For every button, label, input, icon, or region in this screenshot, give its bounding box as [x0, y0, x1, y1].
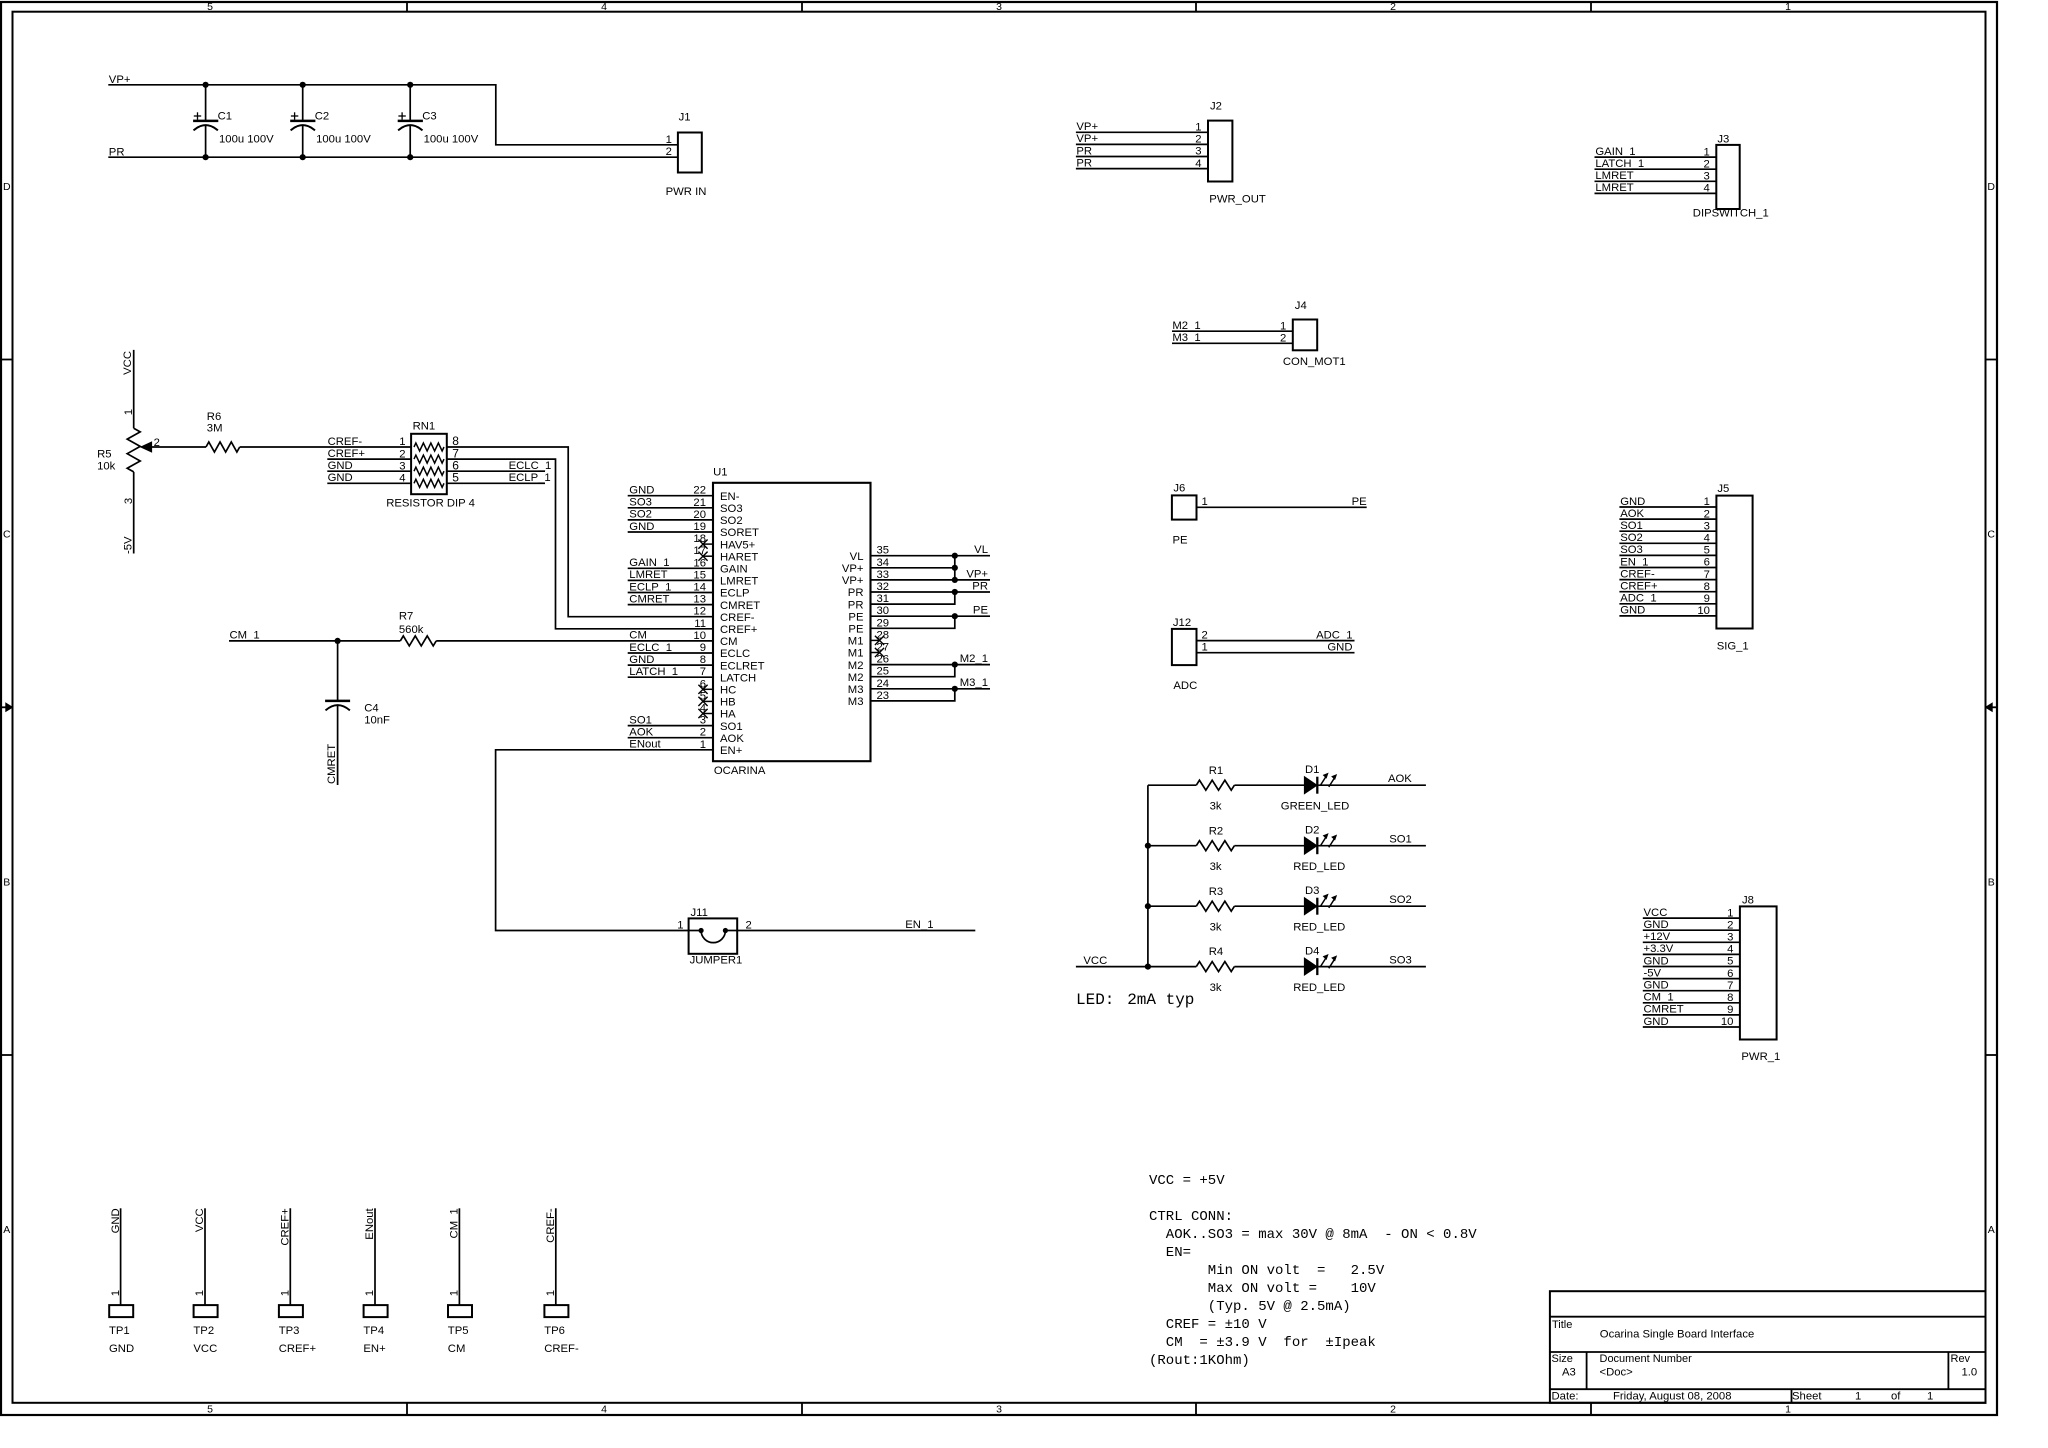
wire M2_1 to J4 [1172, 330, 1293, 332]
wire CREF- to J5 [1619, 579, 1716, 581]
svg-text:CON_MOT1: CON_MOT1 [1283, 356, 1346, 368]
node M2_1 label at J4 [1172, 320, 1200, 332]
svg-text:ECLC_1: ECLC_1 [509, 460, 552, 472]
node GAIN_1 label at U1 pin 16 [629, 557, 669, 569]
svg-text:SO2: SO2 [1620, 532, 1643, 544]
node M3_1 label at U1 [960, 677, 988, 689]
svg-text:ECLRET: ECLRET [720, 660, 765, 672]
no-connect X on U1 pin 17 [698, 552, 713, 561]
wire SO3 to U1 pin 21 [628, 507, 713, 509]
node VP+ label at J2 [1076, 133, 1098, 145]
svg-text:PR: PR [1076, 157, 1092, 169]
svg-text:D: D [1987, 181, 1995, 193]
svg-text:M3_1: M3_1 [960, 677, 988, 689]
no-connect X on U1 pin 4 [698, 709, 713, 718]
svg-text:560k: 560k [399, 624, 424, 636]
wire R6 to RN1 pin 1 (CREF-) [240, 446, 411, 448]
svg-text:C: C [1987, 529, 1995, 541]
svg-text:3k: 3k [1210, 861, 1222, 873]
node LATCH_1 label at J3 [1595, 158, 1644, 170]
resistor network RN1 RESISTOR DIP 4 [386, 421, 475, 510]
svg-text:TP1: TP1 [109, 1325, 130, 1337]
node SO3 label at J5 [1620, 544, 1643, 556]
svg-text:ADC: ADC [1173, 680, 1197, 692]
svg-text:TP6: TP6 [544, 1325, 565, 1337]
svg-text:AOK: AOK [629, 727, 653, 739]
node GND label at U1 pin 8 [629, 654, 654, 666]
connector J12 ADC [1172, 617, 1208, 692]
svg-text:ECLC_1: ECLC_1 [629, 642, 672, 654]
power VCC label (LED section) [1083, 955, 1107, 967]
node PE label [1352, 496, 1368, 508]
svg-text:1: 1 [545, 1290, 557, 1296]
svg-text:Min ON volt = 2.5V: Min ON volt = 2.5V [1149, 1263, 1385, 1279]
node CM label at U1 pin 10 [629, 630, 647, 642]
resistor R3 3k [1196, 886, 1234, 934]
svg-text:(Rout:1KOhm): (Rout:1KOhm) [1149, 1353, 1250, 1369]
node GND label at J5 [1620, 496, 1645, 508]
junction pin 35 [952, 553, 958, 559]
wire SO1 to U1 pin 3 [628, 725, 713, 727]
text LED current note [1076, 991, 1194, 1009]
wire SO1 from D2 [1318, 845, 1426, 847]
wire U1 pin 25 to pin 26 tie [871, 665, 955, 677]
svg-text:12: 12 [693, 606, 706, 618]
svg-text:B: B [1988, 876, 1995, 888]
node CMRET (rotated net label at C4 bottom) [326, 744, 338, 784]
svg-text:HAV5+: HAV5+ [720, 539, 756, 551]
svg-text:VP+: VP+ [966, 568, 988, 580]
svg-text:<Doc>: <Doc> [1600, 1366, 1634, 1378]
test point TP5 CM [448, 1290, 472, 1355]
svg-text:ADC_1: ADC_1 [1620, 593, 1656, 605]
svg-text:EN+: EN+ [363, 1343, 386, 1355]
wire SO2 from D3 [1318, 905, 1426, 907]
wire VP+ from U1 pin 33 [871, 579, 991, 581]
svg-text:ECLP_1: ECLP_1 [509, 472, 551, 484]
svg-text:SO3: SO3 [720, 503, 743, 515]
svg-text:3k: 3k [1210, 922, 1222, 934]
node GND label at J5 [1620, 605, 1645, 617]
svg-text:1: 1 [449, 1290, 461, 1296]
test point TP6 CREF- [544, 1290, 579, 1355]
svg-text:SO1: SO1 [629, 714, 652, 726]
node GND label at J8 [1644, 955, 1669, 967]
svg-text:CREF+: CREF+ [720, 624, 758, 636]
svg-text:D4: D4 [1305, 945, 1319, 957]
capacitor C3 100u 100V (polarized) [398, 85, 479, 157]
wire R7 to U1 pin 10 (CM) [436, 640, 713, 642]
svg-text:D: D [3, 181, 11, 193]
svg-text:LMRET: LMRET [1595, 182, 1633, 194]
svg-text:GND: GND [1644, 980, 1669, 992]
svg-text:D1: D1 [1305, 764, 1319, 776]
capacitor C4 10nF [325, 641, 390, 785]
svg-text:PR: PR [1076, 145, 1092, 157]
wire U1 pin 34 to VP+ column [871, 567, 955, 569]
svg-text:TP4: TP4 [363, 1325, 384, 1337]
svg-text:2mA typ: 2mA typ [1127, 991, 1194, 1009]
wire EN_1 to J5 [1619, 567, 1716, 569]
wire VCC to R5 pin 1 [133, 350, 135, 428]
svg-text:GND: GND [109, 1343, 134, 1355]
wire R3 to D3 [1234, 905, 1304, 907]
wire CM_1 to J8 [1643, 1002, 1740, 1004]
wire AOK from D1 [1318, 784, 1426, 786]
svg-text:Document Number: Document Number [1600, 1353, 1693, 1365]
svg-text:3k: 3k [1210, 801, 1222, 813]
connector J5 SIG_1 [1697, 483, 1752, 653]
svg-text:CMRET: CMRET [326, 744, 338, 784]
svg-text:SORET: SORET [720, 527, 759, 539]
wire GND to J8 [1643, 929, 1740, 931]
svg-text:LATCH_1: LATCH_1 [1595, 158, 1644, 170]
svg-text:RESISTOR DIP 4: RESISTOR DIP 4 [386, 497, 475, 509]
node LMRET label at J3 [1595, 170, 1633, 182]
node GND label at J8 [1644, 919, 1669, 931]
svg-text:GAIN_1: GAIN_1 [1595, 146, 1635, 158]
svg-text:VCC: VCC [1644, 907, 1668, 919]
wire LATCH_1 to J3 [1595, 168, 1717, 170]
node +3.3V label at J8 [1644, 943, 1674, 955]
junction pin 32 [952, 589, 958, 595]
wire -5V to J8 [1643, 978, 1740, 980]
junction bus/R2 [1145, 843, 1151, 849]
capacitor C2 100u 100V (polarized) [290, 85, 371, 157]
svg-text:CREF-: CREF- [544, 1343, 579, 1355]
junction CM/C4 [335, 638, 341, 644]
svg-text:3M: 3M [207, 423, 223, 435]
svg-text:GND: GND [1620, 496, 1645, 508]
svg-text:1: 1 [1855, 1390, 1861, 1402]
svg-text:C3: C3 [422, 111, 436, 123]
svg-text:CREF+: CREF+ [279, 1343, 317, 1355]
svg-text:ECLC: ECLC [720, 648, 750, 660]
svg-text:2: 2 [1390, 1403, 1396, 1415]
node ECLC_1 label at U1 pin 9 [629, 642, 672, 654]
node GND (rotated net label at TP1) [110, 1208, 122, 1233]
svg-text:R4: R4 [1209, 946, 1223, 958]
wire GND to RN1 pin 3 [327, 470, 411, 472]
svg-text:C1: C1 [218, 111, 232, 123]
wire PE from U1 pin 30 [871, 615, 991, 617]
wire EN_1 from J11 pin 2 [737, 930, 975, 932]
node PR label at J2 [1076, 145, 1092, 157]
svg-text:100u 100V: 100u 100V [219, 134, 274, 146]
test point TP3 CREF+ [279, 1290, 317, 1355]
svg-text:J11: J11 [691, 907, 708, 919]
svg-text:-5V: -5V [123, 536, 135, 554]
node GAIN_1 label at J3 [1595, 146, 1635, 158]
svg-text:M2: M2 [848, 672, 864, 684]
node AOK label at J5 [1620, 508, 1644, 520]
svg-text:J12: J12 [1173, 617, 1191, 629]
node -5V label at J8 [1644, 967, 1662, 979]
wire ENout from U1 pin 1 to J11 pin 1 [496, 750, 713, 931]
wire CREF+ to TP3 [289, 1208, 291, 1305]
junction VP+/C2 [300, 82, 306, 88]
wire GND to U1 pin 22 [628, 495, 713, 497]
node CREF+ (rotated net label at TP3) [280, 1208, 292, 1246]
svg-text:1: 1 [1202, 496, 1208, 508]
svg-text:M1: M1 [848, 648, 864, 660]
junction pin 30 [952, 613, 958, 619]
wire ADC_1 to J5 [1619, 603, 1716, 605]
svg-text:DIPSWITCH_1: DIPSWITCH_1 [1693, 208, 1769, 220]
svg-text:Size: Size [1552, 1353, 1573, 1365]
wire LMRET to U1 pin 15 [628, 579, 713, 581]
svg-text:PWR_1: PWR_1 [1741, 1051, 1780, 1063]
svg-text:D2: D2 [1305, 825, 1319, 837]
svg-text:CM_1: CM_1 [230, 630, 260, 642]
connector J2 PWR_OUT [1195, 101, 1266, 206]
wire CREF+ to RN1 pin 2 [327, 458, 411, 460]
resistor R6 3M [206, 411, 240, 452]
node VP+ label at J2 [1076, 121, 1098, 133]
node PE label at U1 [973, 605, 989, 617]
node GND label at RN1 pin 4 [328, 472, 353, 484]
svg-text:11: 11 [694, 618, 706, 630]
svg-text:CM = ±3.9 V for ±Ipeak: CM = ±3.9 V for ±Ipeak [1149, 1335, 1376, 1351]
svg-text:GND: GND [328, 472, 353, 484]
svg-text:M1: M1 [848, 636, 864, 648]
svg-text:VL: VL [974, 544, 988, 556]
svg-text:R6: R6 [207, 411, 221, 423]
svg-text:VL: VL [850, 551, 864, 563]
svg-text:CMRET: CMRET [629, 593, 669, 605]
svg-text:GND: GND [328, 460, 353, 472]
node VP+ label at U1 [966, 568, 988, 580]
connector J8 PWR_1 [1721, 895, 1781, 1063]
svg-text:J5: J5 [1717, 483, 1729, 495]
wire GND to J8 [1643, 966, 1740, 968]
svg-text:LMRET: LMRET [629, 569, 667, 581]
svg-text:J6: J6 [1173, 482, 1185, 494]
svg-text:+12V: +12V [1644, 931, 1671, 943]
svg-text:CTRL CONN:: CTRL CONN: [1149, 1209, 1233, 1225]
wire M3_1 to J4 [1172, 342, 1293, 344]
svg-text:D3: D3 [1305, 885, 1319, 897]
wire PR from U1 pin 32 [871, 591, 991, 593]
svg-text:LMRET: LMRET [1595, 170, 1633, 182]
svg-text:LED:: LED: [1076, 991, 1114, 1009]
svg-text:VCC = +5V: VCC = +5V [1149, 1173, 1225, 1189]
svg-text:1: 1 [1785, 1403, 1791, 1415]
svg-text:1: 1 [666, 134, 672, 146]
svg-text:SO2: SO2 [720, 515, 743, 527]
svg-text:PR: PR [848, 587, 864, 599]
wire RN1 pin 6 stub ECLC_1 [447, 470, 545, 472]
svg-text:5: 5 [452, 471, 459, 485]
potentiometer R5 10k [97, 409, 160, 504]
svg-text:SO3: SO3 [1620, 544, 1643, 556]
resistor R4 3k [1196, 946, 1234, 994]
power VCC (rotated net label at R5) [122, 351, 134, 375]
node CM_1 label (left end of CM wire) [230, 630, 260, 642]
node AOK label (LED row) [1388, 773, 1412, 785]
wire GND from J12 pin 1 [1197, 652, 1355, 654]
resistor R2 3k [1196, 825, 1234, 873]
wire GND to J5 [1619, 615, 1716, 617]
svg-text:VCC: VCC [122, 351, 134, 375]
svg-text:3: 3 [996, 1403, 1002, 1415]
node ADC_1 label [1316, 629, 1352, 641]
svg-text:PE: PE [1352, 496, 1368, 508]
junction VP+/C1 [203, 82, 209, 88]
svg-text:CM: CM [448, 1343, 466, 1355]
wire R5 wiper to R6 [152, 446, 207, 448]
junction PR/C1 [203, 154, 209, 160]
wire GND to RN1 pin 4 [327, 482, 411, 484]
node SO2 label (LED row) [1389, 894, 1412, 906]
svg-text:1: 1 [123, 409, 135, 415]
svg-text:100u 100V: 100u 100V [424, 134, 479, 146]
junction pin 24 [952, 686, 958, 692]
node +12V label at J8 [1644, 931, 1671, 943]
wire ECLP_1 to U1 pin 14 [628, 592, 713, 594]
svg-text:AOK: AOK [1620, 508, 1644, 520]
LED D3 RED_LED [1293, 885, 1345, 934]
svg-text:CREF = ±10 V: CREF = ±10 V [1149, 1317, 1267, 1333]
svg-text:EN=: EN= [1149, 1245, 1191, 1261]
svg-text:LATCH: LATCH [720, 672, 756, 684]
wire +3.3V to J8 [1643, 953, 1740, 955]
wire PR to J2 [1076, 168, 1208, 170]
node PR (net label) [109, 146, 125, 158]
no-connect X on U1 pin 28 [871, 636, 885, 645]
node GND label at J8 [1644, 1016, 1669, 1028]
svg-text:GAIN: GAIN [720, 564, 748, 576]
wire ENout to TP4 [374, 1208, 376, 1305]
wire GND to U1 pin 8 [628, 664, 713, 666]
svg-text:PR: PR [848, 599, 864, 611]
svg-text:RN1: RN1 [413, 421, 436, 433]
junction PR/C2 [300, 154, 306, 160]
wire CMRET to U1 pin 13 [628, 604, 713, 606]
node LMRET label at U1 pin 15 [629, 569, 667, 581]
svg-text:A3: A3 [1562, 1366, 1576, 1378]
connector J1 PWR IN [666, 112, 707, 199]
svg-text:1: 1 [110, 1290, 122, 1296]
wire M2_1 from U1 pin 26 [871, 664, 991, 666]
wire PR to J2 [1076, 156, 1208, 158]
wire ADC_1 from J12 pin 2 [1197, 640, 1355, 642]
wire GND to TP1 [120, 1208, 122, 1305]
svg-text:2: 2 [666, 146, 672, 158]
svg-text:EN_1: EN_1 [1620, 556, 1648, 568]
svg-text:PWR IN: PWR IN [666, 186, 707, 198]
svg-text:J2: J2 [1210, 101, 1222, 113]
wire RN1 pin 5 stub ECLP_1 [447, 482, 545, 484]
svg-text:GND: GND [1644, 919, 1669, 931]
wire CM_1 to TP5 [458, 1208, 460, 1305]
svg-text:TP3: TP3 [279, 1325, 300, 1337]
node M3_1 label at J4 [1172, 332, 1200, 344]
wire bus to R4 [1148, 966, 1196, 968]
wire +12V to J8 [1643, 941, 1740, 943]
wire U1 pin 23 to pin 24 tie [871, 689, 955, 701]
svg-text:AOK..SO3 = max 30V @ 8mA - ON: AOK..SO3 = max 30V @ 8mA - ON < 0.8V [1149, 1227, 1477, 1243]
svg-text:RED_LED: RED_LED [1293, 922, 1345, 934]
wire PE from J6 [1197, 506, 1367, 508]
svg-text:U1: U1 [713, 467, 727, 479]
svg-text:R5: R5 [97, 448, 111, 460]
text electrical notes block [1149, 1173, 1477, 1369]
svg-text:GND: GND [629, 654, 654, 666]
svg-text:ENout: ENout [629, 739, 661, 751]
node CMRET label at U1 pin 13 [629, 593, 669, 605]
svg-text:Max ON volt = 10V: Max ON volt = 10V [1149, 1281, 1376, 1297]
no-connect X on U1 pin 18 [698, 540, 713, 549]
svg-text:R2: R2 [1209, 825, 1223, 837]
svg-text:HARET: HARET [720, 551, 758, 563]
node GND label at J8 [1644, 980, 1669, 992]
node EN_1 label at J5 [1620, 556, 1648, 568]
node CREF- (rotated net label at TP6) [545, 1208, 557, 1243]
svg-text:PE: PE [848, 611, 864, 623]
wire R5 pin 3 to -5V [133, 472, 135, 554]
svg-text:SO3: SO3 [629, 497, 652, 509]
node SO1 label at U1 pin 3 [629, 714, 652, 726]
wire bus to R1 [1148, 784, 1196, 786]
svg-text:Date:: Date: [1552, 1390, 1579, 1402]
IC U1 OCARINA (body and pin names) [693, 467, 889, 777]
junction bus/R3 [1145, 903, 1151, 909]
connector J3 DIPSWITCH_1 [1693, 134, 1769, 220]
node CM_1 label at J8 [1644, 992, 1674, 1004]
svg-text:J8: J8 [1742, 895, 1754, 907]
svg-text:1: 1 [194, 1290, 206, 1296]
junction pin 33 [952, 577, 958, 583]
svg-text:3k: 3k [1210, 982, 1222, 994]
junction bus/R4 [1145, 964, 1151, 970]
svg-text:TP2: TP2 [193, 1325, 214, 1337]
svg-text:PE: PE [1173, 535, 1189, 547]
svg-text:M3_1: M3_1 [1172, 332, 1200, 344]
svg-text:2: 2 [746, 919, 752, 931]
wire GAIN_1 to J3 [1595, 156, 1717, 158]
node VCC (rotated net label at TP2) [194, 1208, 206, 1232]
no-connect X on U1 pin 6 [698, 685, 713, 694]
svg-text:GAIN_1: GAIN_1 [629, 557, 669, 569]
wire VP+ bus to J1 pin 1 [108, 85, 678, 145]
svg-text:RED_LED: RED_LED [1293, 861, 1345, 873]
jumper J11 JUMPER1 [677, 907, 752, 966]
svg-text:1: 1 [280, 1290, 292, 1296]
svg-text:B: B [3, 876, 10, 888]
svg-text:2: 2 [1390, 1, 1396, 13]
svg-text:M2_1: M2_1 [1172, 320, 1200, 332]
junction PR/C3 [407, 154, 413, 160]
svg-text:GND: GND [1644, 1016, 1669, 1028]
node VCC label at J8 [1644, 907, 1668, 919]
wire SO2 to U1 pin 20 [628, 519, 713, 521]
wire GND to J8 [1643, 990, 1740, 992]
svg-text:GND: GND [629, 521, 654, 533]
svg-text:M3: M3 [848, 684, 864, 696]
node CREF- label at RN1 pin 1 [328, 436, 363, 448]
wire M3_1 from U1 pin 24 [871, 688, 991, 690]
node ENout (rotated net label at TP4) [364, 1207, 376, 1239]
node ECLP_1 label at U1 pin 14 [629, 581, 671, 593]
node GND label at U1 pin 22 [629, 485, 654, 497]
svg-text:CREF-: CREF- [328, 436, 363, 448]
svg-text:C2: C2 [315, 111, 329, 123]
power -5V (rotated net label) [123, 536, 135, 554]
svg-text:SO2: SO2 [629, 509, 652, 521]
junction VP+/C3 [407, 82, 413, 88]
svg-text:C4: C4 [364, 703, 378, 715]
